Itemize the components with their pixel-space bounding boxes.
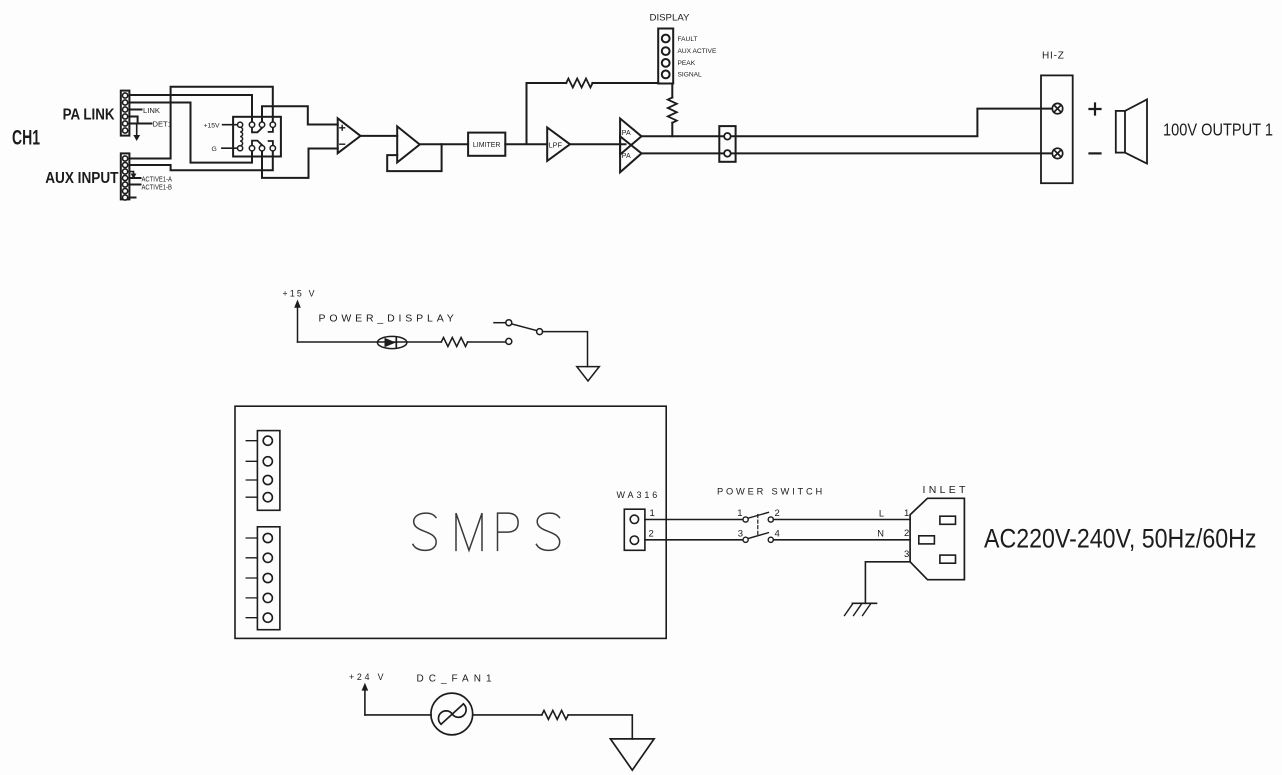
power +24V <box>349 672 386 715</box>
wire AUX pin1 top loop to relay R1 <box>129 87 272 159</box>
svg-text:POWER SWITCH: POWER SWITCH <box>717 486 825 496</box>
switch S1 <box>494 320 543 345</box>
connector J4 <box>719 126 735 162</box>
wire LPF to PA <box>570 143 626 145</box>
svg-text:1: 1 <box>737 508 742 519</box>
svg-text:POWER_DISPLAY: POWER_DISPLAY <box>319 313 458 325</box>
connector J2 AUX INPUT <box>45 153 129 200</box>
LED D1 <box>377 336 407 348</box>
wire switch pin2 to inlet L <box>773 519 910 521</box>
node ACTIVE1-B <box>129 183 172 192</box>
block SMPS <box>235 406 666 638</box>
svg-text:AUX INPUT: AUX INPUT <box>45 170 119 187</box>
wire AUX pin2 to relay R2 <box>129 148 272 170</box>
svg-text:INLET: INLET <box>923 484 969 496</box>
wire display down to resistor R2 <box>671 84 673 137</box>
svg-text:100V OUTPUT 1: 100V OUTPUT 1 <box>1163 120 1273 140</box>
svg-text:+15 V: +15 V <box>283 289 317 299</box>
svg-text:CH1: CH1 <box>12 126 40 149</box>
wire WA316 pin2 to switch <box>645 539 743 541</box>
wire resistor to ground <box>568 715 632 739</box>
svg-text:G: G <box>212 146 217 153</box>
node ACTIVE1-A <box>129 172 172 184</box>
ground <box>610 739 654 770</box>
wire switch pin4 to inlet N <box>773 539 910 541</box>
resistor R3 <box>441 338 467 347</box>
wire +24V to fan <box>365 714 431 716</box>
filter LPF <box>547 128 570 161</box>
svg-text:2: 2 <box>649 528 654 539</box>
svg-text:+24 V: +24 V <box>349 672 386 682</box>
svg-text:LPF: LPF <box>549 140 563 149</box>
svg-text:DISPLAY: DISPLAY <box>650 13 690 23</box>
relay coil <box>238 122 243 127</box>
wire PA upper output to HI-Z + terminal <box>642 109 1053 137</box>
node LINK <box>129 106 159 115</box>
svg-text:AUX ACTIVE: AUX ACTIVE <box>678 48 717 55</box>
svg-text:3: 3 <box>738 529 743 540</box>
connector J3 DISPLAY <box>650 13 717 84</box>
wire switch to ground <box>543 332 588 367</box>
wire relay M2 to op-amp - input <box>262 148 338 178</box>
wire buffer feedback <box>387 144 441 171</box>
svg-text:2: 2 <box>904 528 909 539</box>
svg-text:SIGNAL: SIGNAL <box>678 72 703 79</box>
block LIMITER <box>468 133 505 156</box>
wire PA pin1 to relay L1 <box>129 95 252 125</box>
wire WA316 pin1 to switch <box>645 519 743 521</box>
wire +15V to switch <box>298 341 506 343</box>
connector J5 <box>246 431 280 511</box>
svg-text:PA LINK: PA LINK <box>63 107 116 124</box>
connector J6 <box>246 527 280 630</box>
relay contacts row 2 <box>252 141 262 146</box>
svg-text:ACTIVE1-B: ACTIVE1-B <box>142 183 173 192</box>
wire PA pin2 to relay L2 <box>129 103 252 163</box>
connector J1 PA LINK <box>63 91 130 136</box>
switch POWER SWITCH <box>717 486 825 542</box>
label SMPS <box>413 513 560 550</box>
relay K1 <box>204 117 281 157</box>
svg-text:FAULT: FAULT <box>678 36 698 43</box>
svg-text:PEAK: PEAK <box>678 60 696 67</box>
amplifier PA lower <box>620 136 641 172</box>
svg-text:PA: PA <box>622 130 631 137</box>
ground arrow below PA LINK <box>133 124 140 142</box>
wire relay M1 to op-amp + input <box>262 106 338 124</box>
resistor R4 <box>542 710 568 719</box>
svg-text:N: N <box>877 529 884 539</box>
svg-text:AC220V-240V, 50Hz/60Hz: AC220V-240V, 50Hz/60Hz <box>984 524 1257 554</box>
svg-text:WA316: WA316 <box>617 490 661 500</box>
wire buffer out to limiter <box>420 143 468 145</box>
inlet AC INLET <box>877 484 968 580</box>
wire U1 out to buffer <box>361 135 398 137</box>
fan DC_FAN1 <box>417 673 497 735</box>
wire PA lower output to HI-Z - terminal <box>642 152 1053 154</box>
wire fan to resistor <box>473 714 542 716</box>
svg-text:2: 2 <box>775 508 780 519</box>
svg-text:PA: PA <box>622 153 631 160</box>
svg-text:L: L <box>879 508 884 518</box>
svg-text:DET1: DET1 <box>153 119 172 128</box>
connector WA316 <box>617 490 661 551</box>
svg-text:+15V: +15V <box>204 123 221 130</box>
ground <box>577 367 600 381</box>
resistor R1 <box>566 79 592 88</box>
svg-text:DC_FAN1: DC_FAN1 <box>417 673 497 684</box>
svg-text:1: 1 <box>904 508 909 519</box>
terminal block HI-Z <box>1041 51 1101 184</box>
wire limiter to LPF with junction riser <box>505 83 547 144</box>
svg-text:3: 3 <box>904 549 909 560</box>
svg-text:4: 4 <box>775 529 780 540</box>
svg-text:LIMITER: LIMITER <box>473 142 501 149</box>
ground (earth) <box>845 603 877 615</box>
relay contacts row 1 <box>252 127 262 132</box>
op-amp U2 buffer <box>397 126 420 162</box>
svg-text:1: 1 <box>650 508 655 519</box>
power +15V <box>283 289 317 343</box>
svg-text:HI-Z: HI-Z <box>1042 51 1065 62</box>
wire junction to display resistor <box>527 82 659 84</box>
amplifier PA upper <box>620 119 641 155</box>
svg-text:LINK: LINK <box>143 106 160 115</box>
node DET1 <box>129 117 172 129</box>
resistor R2 <box>668 98 677 123</box>
speaker LS1 <box>1116 99 1273 163</box>
op-amp U1 <box>338 118 361 153</box>
stub bottom pin <box>129 197 135 199</box>
wire inlet pin3 to earth <box>865 562 910 604</box>
